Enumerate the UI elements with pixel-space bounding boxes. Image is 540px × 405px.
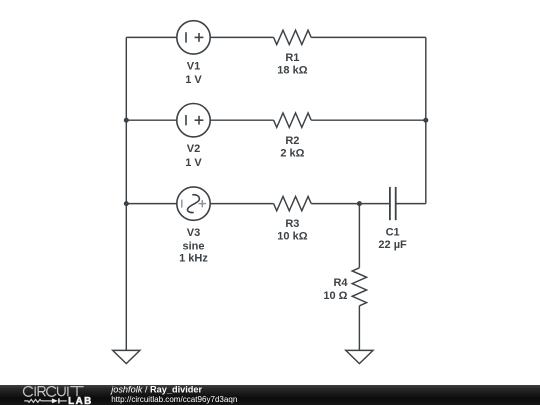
logo diode — [52, 398, 58, 403]
wire row1 middle segment — [210, 36, 273, 38]
svg-text:1 kHz: 1 kHz — [179, 253, 208, 265]
wire C1 to right rail — [396, 203, 426, 205]
capacitor C1 — [390, 187, 396, 220]
resistor R2 — [274, 113, 312, 127]
node junction left rail row3 — [124, 201, 129, 206]
wire row3 middle segment — [210, 203, 273, 205]
ground left — [113, 350, 140, 363]
node junction right rail row2 — [423, 118, 428, 123]
footer bar — [0, 385, 540, 405]
svg-text:10 Ω: 10 Ω — [323, 290, 347, 302]
wire left vertical rail — [125, 37, 127, 350]
logo CIRCUIT lettering — [23, 386, 83, 396]
svg-text:http://circuitlab.com/ccat96y7: http://circuitlab.com/ccat96y7d3aqn — [111, 395, 237, 404]
svg-text:1 V: 1 V — [185, 157, 202, 169]
svg-text:1 V: 1 V — [185, 74, 202, 86]
svg-text:C1: C1 — [386, 226, 400, 238]
svg-text:R3: R3 — [285, 218, 299, 230]
svg-text:2 kΩ: 2 kΩ — [280, 147, 304, 159]
svg-text:R4: R4 — [333, 277, 348, 289]
wire node to C1 segment — [359, 203, 390, 205]
svg-text:V3: V3 — [187, 227, 200, 239]
voltage source V1 — [177, 21, 210, 54]
svg-text:22 µF: 22 µF — [378, 239, 407, 251]
node junction row3 R4 branch — [357, 201, 362, 206]
svg-text:joshfolk / Ray_divider: joshfolk / Ray_divider — [109, 385, 202, 395]
wire row1 right segment — [311, 36, 426, 38]
ground right — [346, 350, 373, 363]
svg-text:V1: V1 — [187, 60, 200, 72]
sine voltage source V3 — [177, 187, 210, 220]
svg-text:V2: V2 — [187, 143, 200, 155]
svg-text:R1: R1 — [285, 52, 299, 64]
wire row3 to node segment — [311, 203, 359, 205]
svg-text:R2: R2 — [285, 135, 299, 147]
resistor R4 — [352, 268, 366, 306]
wire row3 left segment — [126, 203, 177, 205]
svg-text:LAB: LAB — [68, 396, 93, 405]
voltage source V2 — [177, 104, 210, 137]
wire row2 right segment — [311, 119, 426, 121]
wire row2 middle segment — [210, 119, 273, 121]
node junction left rail row2 — [124, 118, 129, 123]
wire row1 left segment — [126, 36, 177, 38]
svg-text:10 kΩ: 10 kΩ — [277, 231, 307, 243]
wire R4 to ground — [358, 306, 360, 351]
logo resistor zigzag — [24, 399, 53, 402]
wire row2 left segment — [126, 119, 177, 121]
svg-text:18 kΩ: 18 kΩ — [277, 65, 307, 77]
wire right vertical rail — [425, 37, 427, 203]
wire node down to R4 — [358, 204, 360, 268]
resistor R1 — [274, 30, 312, 44]
svg-text:sine: sine — [182, 240, 204, 252]
resistor R3 — [274, 196, 312, 210]
